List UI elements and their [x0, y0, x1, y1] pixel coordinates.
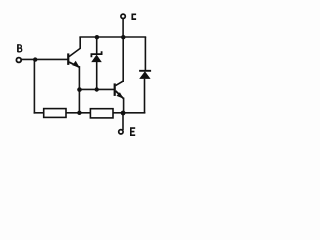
junction dot bottom rail E terminal: [121, 111, 126, 116]
wire bottom rail: [34, 112, 144, 114]
wire left drop from node B to bottom rail: [33, 59, 35, 112]
wire top rail: [80, 36, 145, 38]
terminal C: [121, 14, 125, 18]
terminal B: [16, 58, 21, 63]
wire E terminal drop: [122, 113, 124, 129]
wire Q2 emitter to bottom rail: [123, 98, 125, 112]
wire Q1 emitter vertical: [78, 67, 80, 113]
junction dot C top rail: [121, 35, 125, 39]
transistor Q2: [115, 81, 124, 99]
label E: [131, 128, 135, 135]
junction dot node B: [33, 57, 37, 61]
wire C terminal drop to top rail: [122, 19, 124, 37]
resistor R2: [90, 109, 113, 118]
junction dot bottom rail Q1 emitter: [77, 111, 81, 115]
junction dot zener top rail: [95, 35, 99, 39]
zener diode D1: [91, 37, 102, 89]
resistor R1: [44, 109, 66, 118]
junction dot node A Q1 emitter: [77, 87, 82, 92]
wire B terminal to Q1 base: [22, 58, 67, 60]
label C: [132, 14, 136, 19]
label B: [18, 44, 22, 52]
wire node A to Q2 base: [79, 88, 113, 90]
transistor Q1: [68, 37, 80, 68]
junction dot zener bottom: [95, 87, 99, 91]
diode D2: [139, 37, 151, 113]
terminal E: [119, 130, 123, 134]
wire top rail to Q2 collector: [122, 37, 124, 81]
